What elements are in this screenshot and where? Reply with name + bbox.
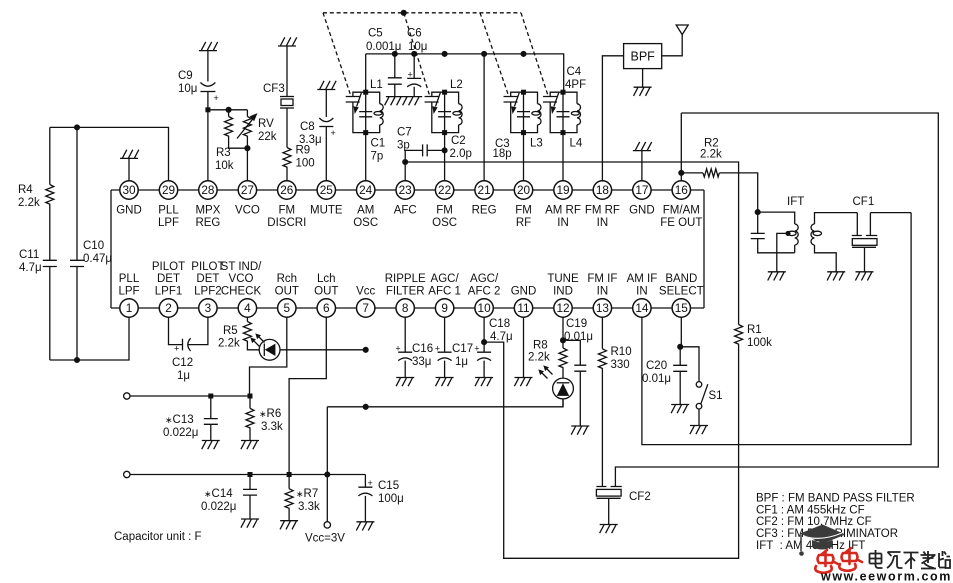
- svg-text:CF1 : AM 455kHz CF: CF1 : AM 455kHz CF: [756, 504, 865, 516]
- capacitor C20 0.01u: [671, 347, 689, 413]
- svg-text:GND: GND: [511, 286, 537, 298]
- svg-text:FM RF: FM RF: [585, 205, 620, 217]
- svg-text:CF2 : FM 10.7MHz CF: CF2 : FM 10.7MHz CF: [756, 516, 872, 528]
- svg-text:3p: 3p: [397, 140, 410, 152]
- svg-text:0.022μ: 0.022μ: [201, 501, 236, 513]
- svg-text:16: 16: [675, 183, 689, 197]
- svg-text:FE OUT: FE OUT: [660, 217, 702, 229]
- svg-text:18: 18: [596, 183, 610, 197]
- ground shared C5 C6: [385, 97, 423, 106]
- variable resistor RV 22k: [237, 110, 258, 181]
- resistor R5 2.2k: [243, 317, 259, 350]
- node gang dashed junction: [401, 10, 406, 15]
- svg-text:RF: RF: [516, 217, 531, 229]
- resistor R10 330: [598, 317, 606, 487]
- svg-text:2.2k: 2.2k: [18, 197, 40, 209]
- top row pin function labels: [116, 205, 702, 230]
- svg-text:REG: REG: [472, 205, 497, 217]
- capacitor C9 10u: [200, 83, 218, 182]
- svg-text:TUNE: TUNE: [547, 273, 579, 285]
- svg-text:∗R7: ∗R7: [296, 488, 318, 500]
- svg-text:L2: L2: [450, 79, 463, 91]
- ground above pin30: [120, 150, 139, 181]
- svg-text:22: 22: [438, 183, 451, 197]
- svg-text:OUT: OUT: [275, 286, 299, 298]
- svg-text:C5: C5: [368, 28, 383, 40]
- svg-text:+: +: [408, 70, 413, 80]
- resistor R3 10k: [225, 107, 248, 148]
- svg-text:DET: DET: [157, 273, 180, 285]
- wire REG column pin21: [483, 54, 485, 181]
- ground above pin17: [633, 142, 652, 181]
- svg-text:FM: FM: [515, 205, 532, 217]
- svg-text:R4: R4: [18, 184, 33, 196]
- svg-text:4: 4: [244, 301, 251, 315]
- svg-text:C6: C6: [407, 28, 422, 40]
- tank L1 C1 (AM OSC): [346, 90, 384, 181]
- svg-text:0.47μ: 0.47μ: [83, 253, 112, 265]
- node AGC/AFC2: [482, 340, 487, 345]
- svg-text:FM/AM: FM/AM: [663, 205, 700, 217]
- svg-text:C9: C9: [178, 70, 193, 82]
- LED stereo indicator: [259, 339, 368, 360]
- svg-text:∗R6: ∗R6: [259, 408, 281, 420]
- wire AFC line to R1 then AGC/AFC2 loop: [405, 162, 738, 558]
- svg-text:ST IND/: ST IND/: [221, 261, 262, 273]
- svg-text:C1: C1: [371, 138, 386, 150]
- svg-text:22k: 22k: [258, 131, 277, 143]
- svg-text:C12: C12: [172, 357, 193, 369]
- svg-text:21: 21: [478, 183, 491, 197]
- svg-text:C15: C15: [378, 480, 399, 492]
- svg-text:C18: C18: [489, 318, 510, 330]
- capacitor C5 0.001u: [388, 54, 402, 97]
- capacitor C13 0.022u: [202, 394, 220, 450]
- svg-text:28: 28: [201, 183, 215, 197]
- svg-text:C19: C19: [566, 318, 587, 330]
- stem pin2 to C12: [169, 317, 183, 345]
- bottom row pin function labels: [118, 261, 703, 298]
- svg-text:10: 10: [478, 301, 492, 315]
- svg-text:∗C14: ∗C14: [204, 488, 233, 500]
- svg-text:19: 19: [556, 183, 569, 197]
- svg-text:23: 23: [399, 183, 413, 197]
- capacitor C12 1u: [174, 317, 208, 354]
- svg-text:0.022μ: 0.022μ: [163, 427, 198, 439]
- svg-text:14: 14: [635, 301, 649, 315]
- capacitor C14 0.022u: [241, 472, 259, 528]
- svg-text:LPF2: LPF2: [194, 286, 222, 298]
- svg-text:CF3: CF3: [263, 83, 285, 95]
- svg-text:C20: C20: [646, 360, 667, 372]
- capacitor C16 33u: [395, 317, 414, 386]
- capacitor C17 1u: [435, 317, 454, 386]
- svg-text:2.2k: 2.2k: [700, 149, 722, 161]
- svg-text:33μ: 33μ: [412, 356, 431, 368]
- svg-text:RV: RV: [258, 118, 274, 130]
- LED light arrows (stereo): [250, 333, 264, 346]
- node MPX REG junction: [205, 107, 247, 112]
- svg-text:3.3k: 3.3k: [261, 421, 283, 433]
- svg-text:C16: C16: [412, 343, 433, 355]
- resistor R8 2.2k: [559, 340, 567, 378]
- svg-text:1μ: 1μ: [455, 356, 468, 368]
- wire PLL loop filter bottom (to pin1): [50, 317, 129, 362]
- svg-text:4.7μ: 4.7μ: [19, 262, 42, 274]
- ground above C8: [317, 81, 336, 117]
- svg-text:DET: DET: [196, 273, 219, 285]
- svg-text:R8: R8: [533, 340, 548, 352]
- IC pin circles bottom row pins 1..15: [120, 299, 691, 317]
- capacitor C6 10u: [407, 54, 421, 97]
- resistor R9 100: [283, 148, 291, 182]
- svg-text:BAND: BAND: [665, 273, 697, 285]
- resistor R4 2.2k: [46, 127, 54, 260]
- svg-text:FM: FM: [436, 205, 453, 217]
- svg-text:AFC 1: AFC 1: [428, 286, 461, 298]
- svg-text:CF2: CF2: [629, 491, 651, 503]
- svg-text:OSC: OSC: [432, 217, 457, 229]
- svg-text:VCO: VCO: [229, 273, 254, 285]
- svg-text:2.2k: 2.2k: [218, 338, 240, 350]
- svg-text:15: 15: [675, 301, 689, 315]
- wire Rch OUT (pin5 jog to R6): [250, 317, 287, 396]
- ceramic discriminator CF3: [280, 97, 294, 148]
- IC pin circles top row pins 30..16: [120, 181, 691, 199]
- svg-text:PLL: PLL: [119, 273, 140, 285]
- svg-text:+: +: [474, 344, 479, 354]
- ground below BPF: [634, 69, 652, 96]
- svg-text:OUT: OUT: [314, 286, 338, 298]
- svg-text:LPF: LPF: [118, 286, 139, 298]
- capacitor C7 3p: [405, 144, 444, 162]
- svg-text:R3: R3: [216, 147, 231, 159]
- svg-text:C11: C11: [19, 249, 39, 261]
- svg-text:IN: IN: [597, 286, 609, 298]
- svg-text:0.01μ: 0.01μ: [564, 331, 593, 343]
- svg-text:100k: 100k: [747, 337, 772, 349]
- svg-text:10μ: 10μ: [178, 83, 197, 95]
- svg-text:5: 5: [284, 301, 291, 315]
- svg-text:RIPPLE: RIPPLE: [385, 273, 426, 285]
- node BAND SELECT: [678, 317, 683, 349]
- svg-text:GND: GND: [116, 205, 142, 217]
- watermark graduation cap: [799, 525, 845, 556]
- ground pin11: [514, 317, 532, 386]
- svg-text:13: 13: [596, 301, 610, 315]
- watermark site name (CJK strokes): [870, 550, 951, 569]
- capacitor C15 100u: [356, 475, 374, 531]
- svg-text:AFC: AFC: [394, 205, 417, 217]
- svg-text:PLL: PLL: [158, 205, 179, 217]
- svg-text:1: 1: [126, 301, 133, 315]
- svg-text:9: 9: [441, 301, 448, 315]
- svg-text:6: 6: [323, 301, 330, 315]
- svg-text:25: 25: [320, 183, 334, 197]
- svg-text:10μ: 10μ: [408, 41, 427, 53]
- svg-text:8: 8: [402, 301, 409, 315]
- svg-text:3.3μ: 3.3μ: [299, 134, 322, 146]
- svg-text:GND: GND: [629, 205, 655, 217]
- svg-text:C2: C2: [451, 135, 466, 147]
- svg-text:0.001μ: 0.001μ: [366, 41, 401, 53]
- svg-text:AM RF: AM RF: [545, 205, 581, 217]
- svg-text:IND: IND: [553, 286, 573, 298]
- svg-text:+: +: [214, 93, 219, 103]
- IF transformer IFT: [751, 210, 858, 281]
- svg-text:PILOT: PILOT: [152, 261, 185, 273]
- watermark bug logo chongchong: [815, 548, 862, 573]
- svg-text:L3: L3: [530, 138, 543, 150]
- svg-text:4PF: 4PF: [565, 79, 586, 91]
- antenna: [662, 25, 689, 56]
- svg-text:AM: AM: [357, 205, 374, 217]
- svg-text:S1: S1: [709, 390, 723, 402]
- svg-text:24: 24: [359, 183, 373, 197]
- band pass filter BPF box: [602, 44, 661, 181]
- tank L2 C2 (FM OSC): [425, 90, 463, 181]
- wire PLL loop filter top (pin29 to R4/C10): [50, 125, 169, 181]
- svg-text:L1: L1: [370, 79, 383, 91]
- svg-text:R5: R5: [223, 325, 238, 337]
- svg-text:2.2k: 2.2k: [528, 352, 550, 364]
- svg-text:Rch: Rch: [277, 273, 297, 285]
- capacitor C8 3.3u: [319, 118, 335, 181]
- svg-text:MPX: MPX: [195, 205, 220, 217]
- svg-text:SELECT: SELECT: [659, 286, 704, 298]
- svg-text:REG: REG: [195, 217, 220, 229]
- terminal L ch OUT: [124, 471, 366, 477]
- ground above CF3: [278, 37, 297, 96]
- svg-text:7: 7: [362, 301, 369, 315]
- svg-text:AGC/: AGC/: [470, 273, 499, 285]
- svg-text:20: 20: [517, 183, 531, 197]
- svg-text:LPF: LPF: [158, 217, 179, 229]
- ceramic filter CF2: [596, 487, 621, 534]
- switch S1: [680, 347, 708, 434]
- svg-text:27: 27: [241, 183, 254, 197]
- svg-text:30: 30: [122, 183, 136, 197]
- svg-text:+: +: [435, 344, 440, 354]
- svg-text:LPF1: LPF1: [155, 286, 183, 298]
- svg-text:2: 2: [165, 301, 172, 315]
- svg-text:BPF : FM BAND PASS FILTER: BPF : FM BAND PASS FILTER: [756, 493, 915, 505]
- svg-text:3.3k: 3.3k: [298, 501, 320, 513]
- svg-text:100μ: 100μ: [378, 493, 404, 505]
- svg-text:+: +: [395, 344, 400, 354]
- svg-text:C17: C17: [452, 343, 473, 355]
- svg-text:∗C13: ∗C13: [165, 414, 194, 426]
- terminal R ch OUT: [124, 393, 250, 399]
- wire FM/AM FE OUT loop (pin16 top line right side to CF2): [615, 113, 938, 487]
- resistor R1 100k: [735, 325, 743, 345]
- svg-text:Lch: Lch: [317, 273, 336, 285]
- svg-text:C7: C7: [397, 127, 412, 139]
- svg-text:17: 17: [635, 183, 648, 197]
- capacitor C18 4.7u: [474, 317, 493, 386]
- svg-text:+: +: [368, 478, 373, 488]
- svg-text:3: 3: [205, 301, 212, 315]
- svg-text:IN: IN: [636, 286, 648, 298]
- tuning gang dashed link: [323, 13, 548, 96]
- svg-text:AGC/: AGC/: [431, 273, 460, 285]
- svg-text:IFT: IFT: [787, 196, 804, 208]
- svg-text:26: 26: [280, 183, 294, 197]
- svg-text:MUTE: MUTE: [310, 205, 343, 217]
- tank L4 C4 (AM RF): [543, 90, 581, 181]
- svg-text:100: 100: [296, 158, 315, 170]
- svg-text:www.eeworm.com: www.eeworm.com: [820, 570, 952, 583]
- svg-text:4.7μ: 4.7μ: [490, 331, 513, 343]
- wire Lch OUT (pin6 jog to R7): [289, 317, 326, 475]
- terminal Vcc=3V: [324, 522, 330, 528]
- svg-text:C8: C8: [300, 121, 315, 133]
- svg-text:1μ: 1μ: [177, 370, 190, 382]
- capacitor C10 0.47u: [70, 127, 84, 360]
- capacitor C19 0.01u: [563, 340, 589, 434]
- svg-text:FILTER: FILTER: [386, 286, 425, 298]
- svg-text:12: 12: [556, 301, 569, 315]
- LED tuning indicator: [553, 378, 574, 407]
- svg-text:Capacitor unit : F: Capacitor unit : F: [114, 531, 202, 543]
- svg-text:FM: FM: [278, 205, 295, 217]
- svg-text:DISCRI: DISCRI: [267, 217, 306, 229]
- IC body outline: [111, 190, 704, 308]
- svg-text:AM IF: AM IF: [627, 273, 658, 285]
- svg-text:Vcc=3V: Vcc=3V: [305, 533, 345, 545]
- svg-text:CHECK: CHECK: [221, 286, 262, 298]
- wire REG supply bus: [366, 52, 564, 93]
- node AFC: [403, 160, 408, 181]
- svg-text:330: 330: [611, 359, 630, 371]
- svg-text:R10: R10: [611, 346, 632, 358]
- svg-text:7p: 7p: [371, 151, 384, 163]
- svg-text:Vcc: Vcc: [356, 286, 375, 298]
- svg-text:+: +: [331, 128, 336, 138]
- svg-text:CF1: CF1: [853, 196, 875, 208]
- resistor R2 2.2k: [681, 169, 757, 212]
- svg-text:29: 29: [162, 183, 175, 197]
- svg-text:OSC: OSC: [353, 217, 378, 229]
- svg-text:IN: IN: [557, 217, 569, 229]
- svg-text:C4: C4: [567, 66, 582, 78]
- svg-text:+: +: [174, 344, 179, 354]
- LED light arrows (tuning): [538, 365, 552, 378]
- wire Vcc rail: [325, 399, 563, 522]
- svg-text:2.0p: 2.0p: [450, 148, 472, 160]
- svg-text:0.01μ: 0.01μ: [642, 373, 671, 385]
- svg-text:10k: 10k: [215, 160, 234, 172]
- svg-text:R1: R1: [747, 324, 762, 336]
- svg-text:R9: R9: [296, 145, 311, 157]
- tank L3 C3 (FM RF): [504, 90, 542, 181]
- svg-text:L4: L4: [570, 138, 583, 150]
- resistor R7 3.3k: [280, 472, 298, 529]
- ceramic filter CF1: [852, 213, 911, 281]
- svg-text:FM IF: FM IF: [587, 273, 617, 285]
- svg-text:PILOT: PILOT: [191, 261, 224, 273]
- svg-text:IN: IN: [597, 217, 609, 229]
- svg-text:AFC 2: AFC 2: [468, 286, 501, 298]
- svg-text:18p: 18p: [493, 148, 512, 160]
- svg-text:VCO: VCO: [235, 205, 260, 217]
- resistor R6 3.3k: [241, 394, 259, 450]
- ground above C9: [199, 42, 218, 82]
- node TUNE IND: [561, 317, 566, 343]
- svg-text:11: 11: [517, 301, 529, 315]
- svg-text:C10: C10: [83, 240, 104, 252]
- capacitor C11 4.7u: [43, 260, 57, 360]
- svg-text:BPF: BPF: [631, 50, 656, 64]
- wire AM IF IN loop (pin14 to CF1 out): [642, 213, 911, 445]
